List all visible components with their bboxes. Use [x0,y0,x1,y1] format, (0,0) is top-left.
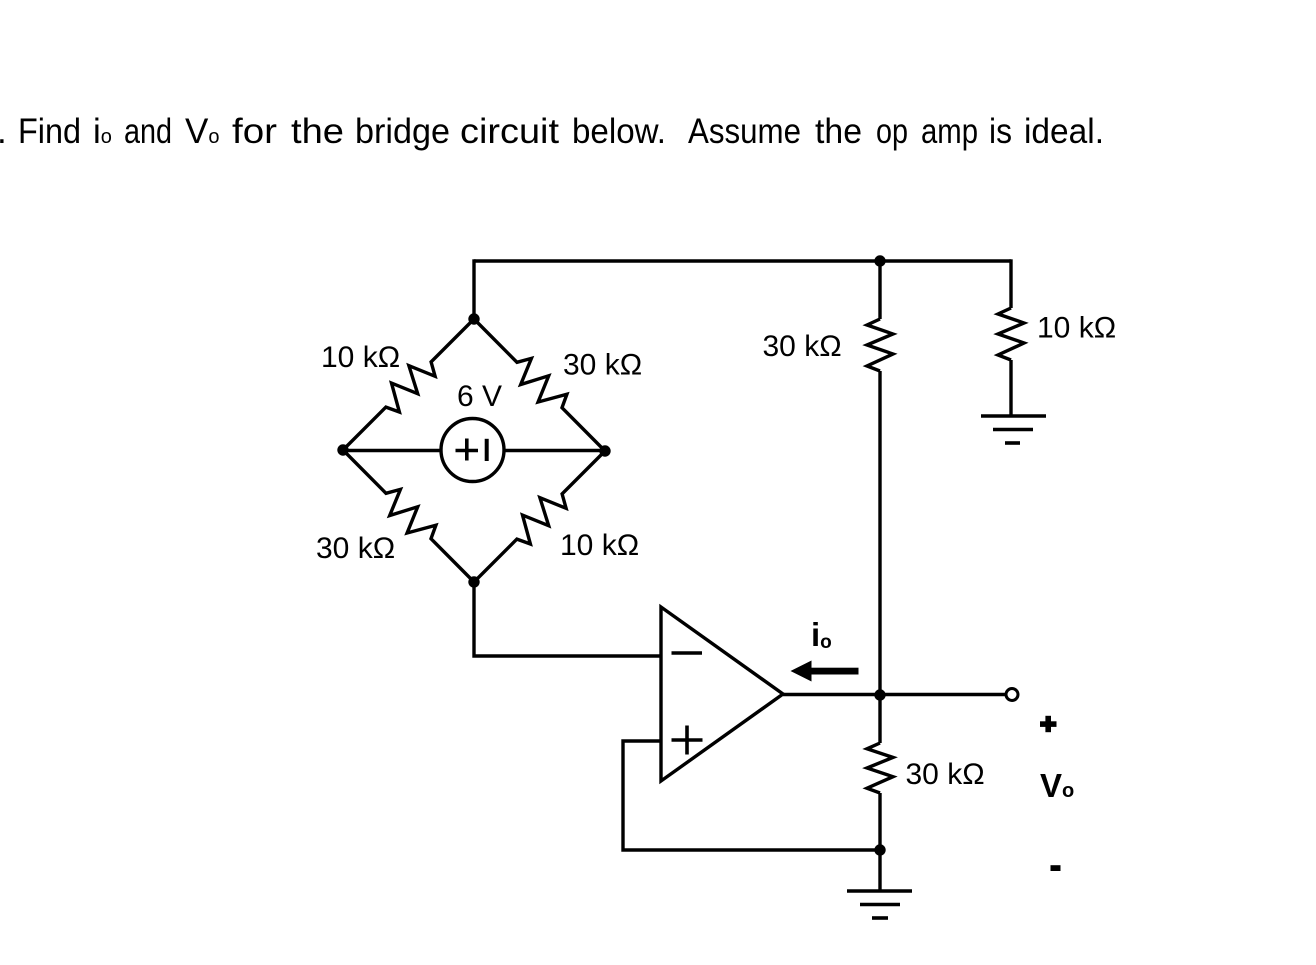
svg-text:30 kΩ: 30 kΩ [906,758,985,791]
wire feedback from non-inverting input [623,741,880,850]
label Vo plus terminal [1040,716,1057,732]
node output junction [874,689,885,700]
op-amp U1 triangle [661,607,783,781]
node top rail junction [874,255,885,266]
ground symbol bottom [847,891,912,918]
svg-text:30 kΩ: 30 kΩ [316,532,395,565]
node bridge top junction [468,313,479,324]
ground symbol right [981,416,1046,443]
resistor 30 k-ohm output to ground [867,743,893,793]
resistor R 30 k-ohm bridge bottom-left [343,450,474,582]
label Vo minus terminal [1051,865,1061,871]
svg-text:is: is [989,112,1012,151]
svg-text:and: and [124,112,172,151]
svg-text:amp: amp [921,112,978,151]
wire bridge left node to source [343,449,441,452]
node bridge right junction [599,445,610,456]
wire bridge top lead [472,259,475,319]
svg-text:30 kΩ: 30 kΩ [763,330,842,363]
svg-text:Find: Find [18,112,81,151]
wire middle rail upper lead [878,261,881,319]
svg-text:bridge: bridge [355,112,450,151]
voltage source 6V circle [441,419,504,482]
svg-text:below.: below. [572,112,666,151]
wire lower resistor to ground node [878,793,881,850]
wire source to bridge right node [504,449,605,452]
svg-text:10 kΩ: 10 kΩ [560,529,639,562]
node bridge left junction [337,444,348,455]
svg-text:30 kΩ: 30 kΩ [563,349,642,382]
wire ground stem [878,850,881,891]
current io arrow [791,661,859,682]
op-amp plus sign [672,726,703,755]
source polarity bar [485,439,489,461]
wire middle rail to output node [878,371,881,695]
svg-text:the: the [291,112,344,151]
wire top rail [474,259,1011,262]
wire op-amp output to terminal [783,693,1006,696]
svg-text:ideal.: ideal. [1024,112,1104,151]
node feedback ground junction [874,844,885,855]
wire bridge bottom to op-amp inverting input [474,582,661,656]
wire 10k to ground [1009,360,1012,416]
wire right rail upper lead [1009,259,1012,308]
svg-text:the: the [815,112,862,151]
svg-text:.: . [0,112,7,151]
svg-text:op: op [876,112,908,151]
resistor R 10 k-ohm bridge top-left [343,319,474,450]
resistor R 30 k-ohm bridge top-right [474,319,605,451]
title text [0,112,1104,151]
svg-text:10 kΩ: 10 kΩ [1037,312,1116,345]
resistor 10 k-ohm right [998,308,1024,360]
svg-text:for: for [232,112,277,151]
svg-text:circuit: circuit [460,112,559,151]
resistor 30 k-ohm middle rail [867,319,893,371]
svg-text:10 kΩ: 10 kΩ [321,341,400,374]
node bridge bottom junction [468,576,479,587]
terminal Vo open circle [1006,689,1018,701]
source polarity plus [456,439,479,461]
wire output node to lower resistor [878,695,881,743]
svg-text:Assume: Assume [688,112,801,151]
resistor R 10 k-ohm bridge bottom-right [474,451,605,582]
op-amp minus sign [672,651,703,655]
svg-text:6 V: 6 V [457,380,502,413]
